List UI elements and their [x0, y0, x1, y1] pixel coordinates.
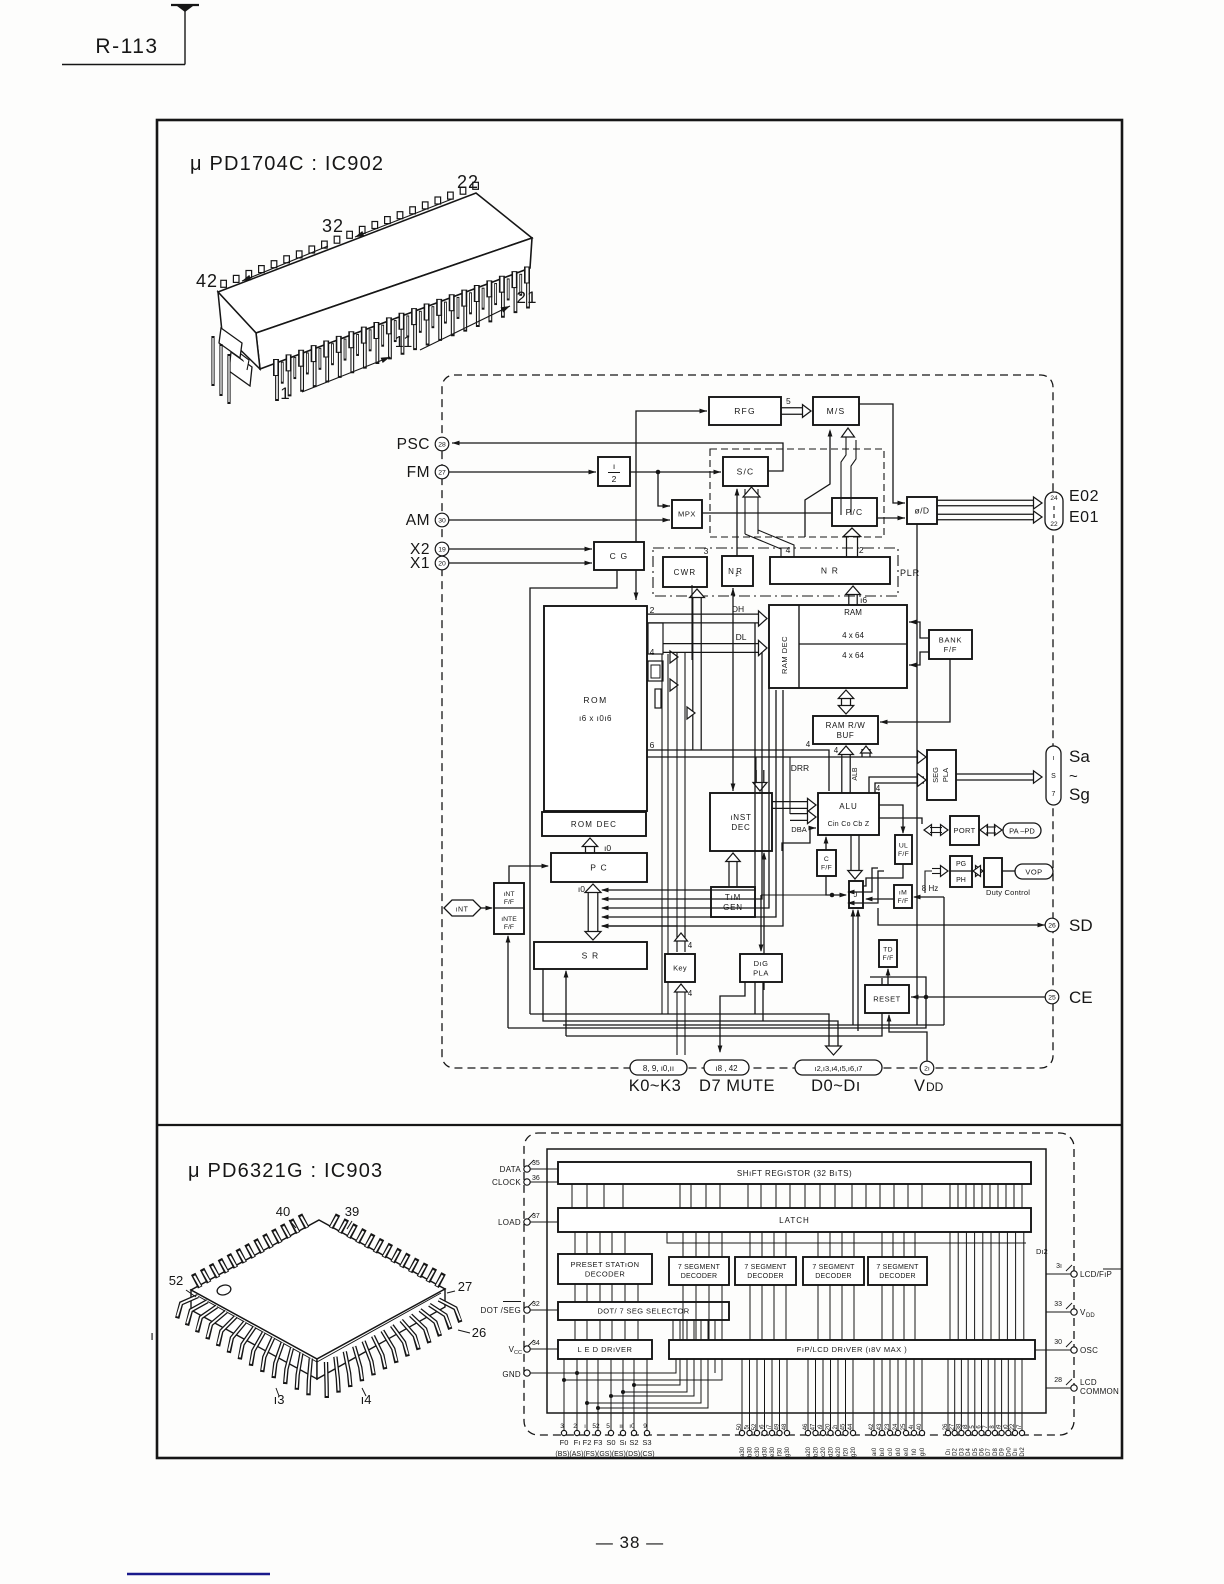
svg-text:PRESET STATıON: PRESET STATıON	[571, 1260, 640, 1269]
svg-text:fı0: fı0	[912, 1448, 918, 1455]
svg-text:47: 47	[811, 1423, 817, 1430]
GND wire	[530, 1372, 577, 1374]
bus NR to S/C staircase	[744, 489, 746, 534]
svg-text:ı7: ı7	[1017, 1424, 1023, 1430]
svg-text:RESET: RESET	[873, 995, 901, 1004]
svg-text:AM: AM	[406, 512, 430, 529]
svg-text:ı9: ı9	[997, 1424, 1003, 1430]
bus PC to ROM DEC	[585, 846, 587, 853]
wire latch rail	[667, 1232, 1026, 1243]
pin 31 LCD/FIP	[1071, 1271, 1077, 1277]
svg-text:LATCH: LATCH	[779, 1216, 810, 1225]
svg-text:c20: c20	[821, 1447, 827, 1457]
wire NfR bottom to INST DEC rail	[732, 588, 734, 791]
svg-text:ıNT: ıNT	[456, 907, 469, 914]
block 7 SEGMENT DECODER 1	[669, 1257, 729, 1285]
block SEG PLA	[927, 750, 956, 800]
bus ALU to PORT	[879, 818, 922, 824]
svg-text:Duty Control: Duty Control	[986, 888, 1030, 897]
svg-text:BUF: BUF	[837, 731, 855, 740]
svg-text:52: 52	[169, 1273, 183, 1288]
svg-text:Sg: Sg	[1069, 785, 1090, 804]
svg-text:E02: E02	[1069, 488, 1099, 505]
svg-text:d20: d20	[829, 1446, 835, 1457]
svg-text:Dı0: Dı0	[1006, 1447, 1012, 1457]
bus PORT to PA-PD	[995, 825, 1003, 836]
DIP far row pins	[281, 362, 284, 384]
svg-text:F/F: F/F	[898, 851, 909, 858]
wires preset decoder to selector	[574, 1284, 576, 1302]
svg-text:7 SEGMENT: 7 SEGMENT	[678, 1264, 721, 1271]
svg-text:ı: ı	[613, 461, 615, 471]
block LED DRIVER	[558, 1340, 652, 1359]
block duty control	[984, 858, 1002, 887]
svg-text:Sı: Sı	[619, 1438, 626, 1447]
svg-text:30: 30	[1054, 1339, 1062, 1346]
svg-text:50: 50	[737, 1423, 743, 1430]
svg-text:Key: Key	[673, 964, 687, 973]
svg-text:S2: S2	[629, 1438, 638, 1447]
block NfR	[722, 556, 753, 586]
QFP-52 package body	[191, 1220, 445, 1359]
svg-text:Dı: Dı	[946, 1449, 952, 1455]
svg-text:26: 26	[1048, 922, 1056, 929]
pin 25 CE	[1045, 990, 1059, 1004]
block LATCH	[558, 1208, 1031, 1232]
block INST DEC	[710, 793, 772, 851]
QFP top-left pins 40-52	[300, 1215, 307, 1229]
svg-text:f20: f20	[844, 1447, 850, 1456]
svg-text:4: 4	[834, 746, 839, 755]
bus ALB between BUF and ALU	[841, 754, 843, 793]
DIP front pins 1-21	[273, 359, 279, 376]
svg-text:4: 4	[786, 545, 791, 555]
svg-text:FM: FM	[407, 464, 430, 481]
svg-text:CE: CE	[1069, 988, 1093, 1007]
svg-text:PG: PG	[956, 861, 966, 868]
wire IM F/F to J	[866, 898, 894, 900]
svg-text:a20: a20	[806, 1446, 812, 1457]
block FIP/LCD DRIVER	[669, 1340, 1035, 1359]
svg-text:CLOCK: CLOCK	[492, 1178, 521, 1187]
svg-text:26: 26	[943, 1423, 949, 1430]
svg-text:PH: PH	[956, 877, 966, 884]
wire RESET to TD F/F	[887, 969, 889, 985]
svg-text:M/S: M/S	[827, 406, 846, 416]
block Key	[665, 954, 695, 982]
svg-text:ı3: ı3	[274, 1392, 285, 1407]
svg-text:Sa: Sa	[1069, 747, 1090, 766]
svg-text:SHıFT REGıSTOR (32 BıTS): SHıFT REGıSTOR (32 BıTS)	[737, 1169, 852, 1178]
block CG	[594, 542, 644, 570]
wire AM to MPX	[449, 519, 670, 521]
block S R	[534, 942, 647, 969]
svg-text:PORT: PORT	[954, 826, 976, 835]
FIP driver output wires E	[947, 1359, 949, 1430]
svg-text:P C: P C	[590, 863, 608, 873]
svg-text:d30: d30	[763, 1446, 769, 1457]
svg-text:S/C: S/C	[737, 467, 755, 477]
svg-text:RAM DEC: RAM DEC	[780, 636, 789, 674]
svg-text:Cin Co Cb Z: Cin Co Cb Z	[828, 821, 870, 828]
svg-text:DH: DH	[732, 604, 744, 614]
svg-text:D6: D6	[980, 1448, 986, 1456]
pin 28 LCD COMMON	[1071, 1385, 1077, 1391]
wire UL F/F to J	[851, 864, 903, 886]
wire into INST DEC bottom	[763, 853, 765, 990]
svg-text:DEC: DEC	[731, 823, 750, 832]
svg-text:L E D DRıVER: L E D DRıVER	[578, 1345, 633, 1354]
wire M/S feed staircase	[805, 431, 830, 537]
svg-text:LCD/FıP: LCD/FıP	[1080, 1270, 1112, 1279]
svg-text:20: 20	[826, 1423, 832, 1430]
svg-text:40: 40	[276, 1204, 290, 1219]
svg-text:24: 24	[893, 1423, 899, 1430]
svg-text:DECODER: DECODER	[815, 1273, 851, 1280]
svg-text:F: F	[735, 573, 738, 579]
block DIG PLA	[740, 954, 782, 982]
wire INT F/F to PC	[509, 866, 548, 883]
block UL F/F	[895, 835, 912, 864]
svg-text:25: 25	[901, 1423, 907, 1430]
svg-text:ı8: ı8	[963, 1424, 969, 1430]
wire C F/F to J rail	[826, 876, 846, 895]
block MPX	[672, 500, 702, 528]
block DOT/7SEG SELECTOR	[558, 1302, 729, 1320]
block BANK F/F	[929, 630, 972, 659]
svg-text:a30: a30	[740, 1446, 746, 1457]
IC903 inner solid boundary	[547, 1149, 1046, 1413]
svg-text:SD: SD	[1069, 916, 1093, 935]
svg-text:PLA: PLA	[941, 768, 950, 782]
svg-text:30: 30	[438, 517, 446, 524]
svg-text:S: S	[1051, 773, 1056, 780]
outer frame	[157, 120, 1122, 1458]
wires shift to latch	[571, 1184, 573, 1208]
svg-text:DECODER: DECODER	[879, 1273, 915, 1280]
svg-text:ı9: ı9	[818, 1424, 824, 1430]
svg-text:LCD: LCD	[1080, 1378, 1097, 1387]
bus INST DEC to ALU upper	[772, 801, 808, 803]
svg-text:BANK: BANK	[939, 636, 963, 645]
svg-text:DOT /SEG: DOT /SEG	[481, 1306, 521, 1315]
block M/S	[813, 397, 859, 425]
svg-text:ROM DEC: ROM DEC	[571, 820, 617, 829]
block J	[849, 881, 863, 908]
wires DIG PLA to data bus	[754, 982, 756, 1014]
block INT F/F INTE F/F	[494, 883, 524, 934]
svg-text:49: 49	[775, 1423, 781, 1430]
svg-text:TıM: TıM	[725, 893, 741, 902]
svg-text:ı0: ı0	[629, 1423, 635, 1430]
wire MPX to P/C	[702, 512, 832, 514]
svg-text:D4: D4	[966, 1448, 972, 1456]
ROM data latches	[648, 623, 663, 654]
svg-text:COMMON: COMMON	[1080, 1387, 1119, 1396]
wire P/C to phase detector	[877, 517, 905, 519]
svg-text:ı: ı	[150, 1328, 154, 1343]
svg-text:F0: F0	[560, 1438, 569, 1447]
svg-text:ı6: ı6	[860, 595, 867, 605]
section divider line	[157, 1124, 1122, 1126]
svg-text:DOT/ 7 SEG SELECTOR: DOT/ 7 SEG SELECTOR	[597, 1307, 689, 1316]
bus to E02	[937, 499, 1034, 501]
svg-text:ıNTE: ıNTE	[501, 916, 517, 923]
svg-text:22: 22	[1050, 521, 1058, 528]
wires selector to LED driver	[574, 1320, 576, 1340]
svg-text:DBA: DBA	[791, 825, 806, 834]
svg-text:5ı: 5ı	[745, 1424, 751, 1429]
svg-text:7: 7	[1052, 791, 1056, 798]
svg-text:ı0: ı0	[1003, 1424, 1009, 1430]
svg-text:(BS)(AS)(FS)(GS)(ES)(DS)(CS): (BS)(AS)(FS)(GS)(ES)(DS)(CS)	[555, 1451, 654, 1458]
bus RAM to BUF bidirectional	[841, 698, 843, 706]
svg-text:ROM: ROM	[583, 695, 607, 705]
wire duty to VOP	[1002, 870, 1015, 872]
svg-text:45: 45	[841, 1423, 847, 1430]
svg-text:DıG: DıG	[754, 959, 769, 968]
block P/C	[832, 498, 877, 526]
svg-text:dı0: dı0	[896, 1447, 902, 1456]
pins 24 22 E02 E01	[1045, 492, 1063, 530]
IC902 outer dashed boundary	[442, 375, 1053, 1068]
svg-text:21: 21	[517, 288, 538, 307]
wires latch to driver right group	[949, 1232, 951, 1340]
svg-text:ı0: ı0	[604, 843, 611, 853]
pins 12-17 D0-D1	[795, 1060, 882, 1075]
wire DIG PLA to MUTE pin	[720, 982, 745, 1052]
block 7 SEGMENT DECODER 4	[868, 1257, 927, 1285]
svg-text:6: 6	[650, 740, 655, 750]
svg-text:25: 25	[1048, 994, 1056, 1001]
dash-dot group box PLR	[653, 548, 898, 596]
wires into J left	[848, 868, 878, 892]
svg-text:PA –PD: PA –PD	[1009, 827, 1035, 836]
svg-text:gı0: gı0	[920, 1447, 926, 1456]
svg-text:μ PD6321G : IC903: μ PD6321G : IC903	[188, 1160, 383, 1182]
pin INT hexagon	[444, 900, 481, 916]
wires into J bottom	[852, 910, 854, 1025]
svg-text:FıP/LCD DRıVER (ı8V MAX ): FıP/LCD DRıVER (ı8V MAX )	[797, 1345, 907, 1354]
svg-text:52: 52	[752, 1423, 758, 1430]
svg-text:D5: D5	[973, 1448, 979, 1456]
bus DRR line into BUF	[861, 749, 863, 757]
svg-text:40: 40	[917, 1423, 923, 1430]
bus into BUF from ROM rail	[647, 750, 829, 791]
svg-text:Fı: Fı	[574, 1438, 581, 1447]
wire BANK to RAM upper	[909, 622, 929, 638]
svg-text:S R: S R	[582, 951, 600, 961]
svg-text:RAM: RAM	[844, 608, 862, 617]
bus into PG PH	[941, 866, 949, 877]
svg-text:36: 36	[532, 1175, 540, 1182]
svg-text:P/C: P/C	[846, 507, 864, 517]
svg-text:3: 3	[560, 1423, 564, 1430]
bus RAM to NR 16-bit	[848, 594, 850, 605]
bus INST DEC to ALU lower	[790, 813, 808, 815]
svg-text:DD: DD	[926, 1080, 944, 1094]
bus ALU to J	[850, 835, 852, 871]
bus PG PH to duty block	[976, 866, 984, 877]
svg-text:5: 5	[786, 396, 791, 406]
svg-text:2ı: 2ı	[924, 1065, 930, 1072]
wires segment decoders to FIP driver	[682, 1285, 684, 1340]
svg-text:ı7: ı7	[767, 1424, 773, 1430]
bus TIM GEN to INST DEC	[728, 861, 730, 887]
wires selector outputs	[672, 1320, 674, 1340]
svg-text:42: 42	[196, 271, 218, 291]
svg-text:ı2,ı3,ı4,ı5,ı6,ı7: ı2,ı3,ı4,ı5,ı6,ı7	[815, 1064, 863, 1073]
svg-text:52: 52	[592, 1423, 600, 1430]
svg-text:eı0: eı0	[904, 1447, 910, 1456]
svg-text:Dı2: Dı2	[1036, 1247, 1048, 1256]
svg-text:ıM: ıM	[899, 890, 907, 897]
svg-text:ALB: ALB	[852, 767, 859, 781]
svg-text:22: 22	[1010, 1423, 1016, 1430]
svg-text:3ı: 3ı	[1056, 1263, 1062, 1270]
svg-text:8, 9, ı0,ıı: 8, 9, ı0,ıı	[643, 1064, 674, 1073]
svg-text:5ı: 5ı	[606, 1423, 612, 1430]
bus Key input from pins	[676, 990, 678, 1055]
pins 1-7 Sa-Sg	[1046, 746, 1061, 805]
block IM F/F	[894, 885, 912, 908]
svg-text:D9: D9	[1000, 1448, 1006, 1456]
QFP pin-1 index mark	[216, 1284, 232, 1297]
QFP bottom-left pins 1-13	[177, 1296, 198, 1318]
wires latch to preset decoder	[574, 1232, 576, 1254]
pin 21 VDD	[920, 1061, 934, 1075]
svg-text:7 SEGMENT: 7 SEGMENT	[876, 1264, 919, 1271]
footer blue rule	[127, 1573, 270, 1576]
svg-text:DECODER: DECODER	[681, 1273, 717, 1280]
svg-text:Dı2: Dı2	[1020, 1447, 1026, 1457]
svg-text:33: 33	[1054, 1301, 1062, 1308]
svg-text:e30: e30	[770, 1446, 776, 1457]
svg-text:4: 4	[688, 989, 693, 998]
svg-text:aı0: aı0	[872, 1447, 878, 1456]
svg-text:ı: ı	[584, 1423, 586, 1430]
svg-text:DL: DL	[736, 632, 747, 642]
pin 30 OSC	[1071, 1347, 1077, 1353]
block P C	[551, 853, 647, 882]
svg-text:46: 46	[803, 1423, 809, 1430]
wires latch to segment decoders	[682, 1232, 684, 1257]
svg-text:28: 28	[1054, 1377, 1062, 1384]
IC903 outer dashed boundary	[524, 1133, 1074, 1435]
svg-text:7 SEGMENT: 7 SEGMENT	[812, 1264, 855, 1271]
bottom pins group A	[561, 1430, 566, 1435]
wire X2 to CG	[449, 548, 592, 550]
svg-text:4: 4	[688, 941, 693, 950]
wire S/C to PSC feedback	[452, 443, 783, 471]
svg-text:27: 27	[458, 1279, 472, 1294]
block PRESET STATION DECODER	[558, 1254, 652, 1284]
wire INT to INT F/F	[481, 907, 492, 909]
block ROM DEC	[542, 812, 646, 836]
svg-text:ı6 x ı0ı6: ı6 x ı0ı6	[579, 714, 612, 723]
block PORT	[950, 816, 979, 845]
long bus lines	[530, 1014, 829, 1050]
block phase output driver	[907, 497, 937, 524]
bus RFG to M/S	[781, 407, 803, 409]
svg-text:43: 43	[877, 1423, 883, 1430]
svg-text:DRR: DRR	[791, 763, 809, 773]
pin VOP	[1015, 864, 1053, 879]
bus M/S hollow feed	[840, 480, 842, 515]
bus Key output	[676, 926, 678, 952]
svg-text:DECODER: DECODER	[585, 1269, 625, 1278]
svg-text:3: 3	[704, 546, 709, 556]
wire half-divider to S/C	[630, 471, 721, 473]
svg-text:GND: GND	[502, 1370, 521, 1379]
block PG PH	[950, 856, 972, 887]
svg-text:S0: S0	[606, 1438, 615, 1447]
svg-text:e20: e20	[836, 1446, 842, 1457]
wire CE to RESET	[911, 996, 1045, 998]
block RESET	[865, 985, 909, 1013]
wire phase rail down	[916, 524, 918, 1025]
svg-text:Dıı: Dıı	[1013, 1448, 1019, 1456]
svg-text:LOAD: LOAD	[498, 1218, 521, 1227]
svg-text:D8: D8	[993, 1448, 999, 1456]
bus CWR bottom input	[692, 597, 694, 750]
DIP top row pins 22-42	[221, 280, 227, 287]
vertical buses mid	[661, 654, 663, 1014]
svg-text:MPX: MPX	[678, 510, 696, 519]
svg-text:b30: b30	[748, 1446, 754, 1457]
svg-text:4: 4	[876, 784, 881, 793]
wire M/S output to phase detector	[859, 404, 905, 503]
pins PA-PD	[1003, 823, 1041, 838]
svg-text:VOP: VOP	[1025, 868, 1042, 877]
block ROM	[544, 606, 647, 811]
wire BANK to RAM lower	[909, 652, 929, 665]
svg-text:4: 4	[650, 647, 655, 657]
DIP-42 package body	[218, 193, 532, 333]
block RAM with RAM DEC	[769, 605, 907, 688]
svg-text:DECODER: DECODER	[747, 1273, 783, 1280]
svg-text:20: 20	[438, 560, 446, 567]
svg-text:TD: TD	[883, 947, 893, 954]
svg-text:b20: b20	[814, 1446, 820, 1457]
wire NfR to S/C	[736, 489, 738, 556]
svg-text:7 SEGMENT: 7 SEGMENT	[744, 1264, 787, 1271]
bus to E01	[937, 513, 1034, 515]
svg-text:44: 44	[848, 1423, 854, 1430]
block TD F/F	[879, 940, 897, 967]
svg-text:8 Hz: 8 Hz	[922, 884, 938, 893]
svg-text:ı0: ı0	[578, 884, 585, 894]
DIP pin-1 end notch	[219, 328, 242, 358]
svg-text:11: 11	[395, 334, 414, 351]
svg-text:C G: C G	[610, 551, 629, 561]
svg-text:4 x 64: 4 x 64	[842, 651, 864, 660]
svg-text:D7 MUTE: D7 MUTE	[699, 1077, 775, 1095]
block RAM R/W BUF	[813, 716, 878, 744]
block CWR	[663, 557, 707, 587]
svg-text:32: 32	[322, 216, 344, 236]
wire FM branch to MPX	[658, 472, 670, 506]
svg-text:F3: F3	[594, 1438, 603, 1447]
svg-text:ı6: ı6	[760, 1424, 766, 1430]
svg-text:48: 48	[782, 1423, 788, 1430]
svg-text:27: 27	[950, 1423, 956, 1430]
DIP left end pins	[211, 336, 214, 386]
svg-text:27: 27	[438, 469, 446, 476]
FIP driver output wires C	[807, 1359, 809, 1430]
fan wires into PC-SR bus	[602, 623, 755, 890]
svg-text:RFG: RFG	[734, 406, 756, 416]
